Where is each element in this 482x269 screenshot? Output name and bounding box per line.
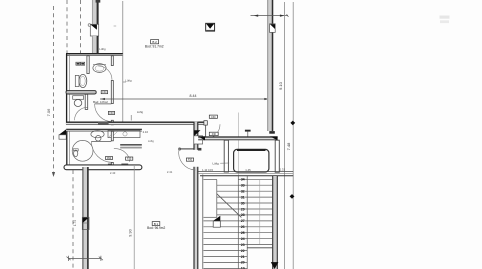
- walking line right flight: [259, 180, 261, 245]
- faint note top right: [440, 16, 450, 24]
- exterior wall left of bath block: [67, 54, 70, 125]
- faint mark left of room: [114, 25, 117, 27]
- landing edge line: [247, 247, 272, 249]
- number strip separators: [238, 179, 247, 268]
- upper lobby door arc: [206, 124, 220, 138]
- door arc lobby-hall: [179, 149, 196, 170]
- svg-text:F30: F30: [102, 91, 107, 94]
- stair direction diagonal: [217, 194, 242, 218]
- svg-text:F30: F30: [211, 116, 216, 119]
- svg-text:27: 27: [241, 219, 245, 223]
- left flight treads: [204, 185, 239, 268]
- bath3 right wall pieces: [111, 131, 113, 141]
- bath block right wall mid piece: [111, 81, 113, 104]
- svg-text:1.31: 1.31: [280, 167, 286, 171]
- door leaf bath block entry: [95, 103, 112, 105]
- svg-text:2.41: 2.41: [167, 170, 173, 174]
- elevator top wall with cut triangles: [198, 136, 277, 140]
- stair wall end triangle bottom: [271, 262, 279, 269]
- door arc bath block entry: [95, 104, 113, 122]
- counter in room D90: [108, 130, 140, 137]
- boundary dashed line 3: [80, 0, 82, 54]
- svg-text:F30: F30: [127, 158, 132, 161]
- svg-text:25: 25: [241, 231, 245, 235]
- dimension extension line x238.7: [238, 113, 240, 177]
- bath block right wall upper piece: [111, 56, 113, 66]
- svg-text:Bod: 91.7m2: Bod: 91.7m2: [145, 44, 164, 48]
- fire label F30 below lobby door: [209, 132, 218, 136]
- svg-text:22: 22: [241, 249, 245, 253]
- svg-text:2.43: 2.43: [110, 171, 116, 175]
- survey marker diamond 2: [290, 194, 295, 199]
- tread numbers: [241, 178, 245, 269]
- survey line x293.2: [292, 2, 294, 269]
- svg-text:23: 23: [241, 243, 245, 247]
- stairwell left boundary lines: [203, 175, 217, 269]
- svg-text:31: 31: [241, 195, 245, 199]
- wall top stub: [96, 0, 101, 3]
- dim text 1.41b middle room: [131, 110, 143, 121]
- toilet 2: [73, 96, 84, 107]
- room label Bu1: [147, 222, 165, 230]
- svg-text:2.10: 2.10: [143, 130, 149, 134]
- main corridor wall A y122: [66, 122, 204, 125]
- vent label elevator: [212, 161, 229, 165]
- svg-text:B 2: B 2: [152, 40, 157, 44]
- svg-text:7.48: 7.48: [286, 142, 291, 151]
- toilet 3: [73, 149, 78, 157]
- partition wall between sink and toilet area: [87, 56, 89, 74]
- svg-text:1.74: 1.74: [73, 220, 77, 226]
- svg-text:32: 32: [241, 190, 245, 194]
- beam line x134 big room: [133, 166, 135, 269]
- vent text Lueftg middle room with leader: [123, 78, 132, 82]
- top dimension line with arrows: [251, 14, 289, 16]
- svg-text:1.10 0.15: 1.10 0.15: [202, 168, 213, 172]
- bottom dimension line with ticks: [67, 256, 104, 261]
- label boxes A6 A9: [76, 62, 85, 65]
- chimney flue symbol 1: [88, 24, 99, 36]
- svg-text:9.90: 9.90: [129, 229, 133, 236]
- door hinge circle: [178, 148, 180, 150]
- threshold hatch marks on bar wall: [108, 164, 112, 167]
- chimney flue symbol lobby wall: [194, 130, 203, 144]
- door arc bath 2: [75, 107, 88, 120]
- survey line x284.6: [284, 2, 286, 269]
- shower circle bath 3: [72, 140, 93, 161]
- wall B cut marker triangle: [59, 129, 66, 139]
- bottom wall of elevator block: [198, 172, 293, 176]
- svg-text:20: 20: [241, 261, 245, 265]
- fire label F30 above lobby door: [209, 115, 217, 119]
- roof window icon room Bu2: [206, 23, 215, 31]
- svg-text:33: 33: [241, 184, 245, 188]
- stair cut symbol left: [213, 216, 220, 227]
- lower wall B y129: [66, 129, 142, 132]
- svg-text:F30: F30: [188, 159, 193, 162]
- exterior wall left vertical lower part: [92, 36, 99, 54]
- svg-text:1.45: 1.45: [245, 168, 251, 172]
- big room left wall x82-88: [82, 167, 88, 269]
- svg-text:34: 34: [241, 178, 245, 182]
- svg-text:7.06: 7.06: [46, 108, 51, 117]
- svg-text:30: 30: [241, 201, 245, 205]
- chimney flue symbol right wall: [270, 24, 276, 33]
- door leaf lobby-hall: [179, 148, 194, 150]
- svg-text:D90: D90: [107, 157, 112, 160]
- stair lobby wall x194-198 upper piece: [194, 122, 199, 150]
- svg-text:Lüftg: Lüftg: [212, 161, 219, 165]
- washbasin bath3: [91, 131, 104, 142]
- svg-text:Lüftg: Lüftg: [137, 110, 144, 114]
- number strip vertical lines: [237, 176, 239, 269]
- interior overhang line x=122.8: [122, 1, 124, 125]
- left wall bath 3: [67, 131, 70, 167]
- svg-text:Bod: 4.8m2: Bod: 4.8m2: [93, 100, 108, 104]
- elevator shaft left wall: [224, 140, 228, 172]
- svg-text:21: 21: [241, 255, 245, 259]
- bar wall with rounded end: [64, 165, 142, 170]
- chimney flue symbol big room wall: [82, 217, 89, 229]
- right flight treads: [247, 179, 272, 244]
- door closer flag mark: [245, 130, 251, 138]
- stairwell right wall: [272, 176, 277, 269]
- elevator shaft right wall: [275, 140, 279, 172]
- svg-text:F30: F30: [109, 112, 114, 115]
- svg-text:Lüftg: Lüftg: [125, 78, 132, 82]
- svg-text:24: 24: [241, 237, 245, 241]
- svg-text:28: 28: [241, 213, 245, 217]
- elevator car: [234, 149, 269, 172]
- partition wall bath2: [85, 94, 88, 109]
- washbasin 1: [93, 64, 106, 73]
- fire label F30 box hall left: [126, 157, 133, 161]
- survey marker diamond 1: [290, 121, 295, 126]
- fire label F30 box hall right: [186, 158, 193, 162]
- svg-text:F30: F30: [212, 133, 217, 136]
- hall wall segment y144-148: [120, 144, 142, 148]
- svg-text:29: 29: [241, 207, 245, 211]
- svg-text:8.44: 8.44: [190, 94, 197, 98]
- door label D90: [106, 156, 113, 160]
- door arc under hall wall: [114, 149, 130, 162]
- svg-text:26: 26: [241, 225, 245, 229]
- boundary dashed line left: [52, 6, 55, 177]
- door arc bath 1: [98, 66, 112, 80]
- exterior wall right of big room: [267, 0, 275, 134]
- horizontal wall y54 top of bath block: [66, 53, 123, 56]
- boundary dashed line bottom left: [72, 170, 74, 269]
- svg-text:Lüftg: Lüftg: [99, 47, 106, 51]
- svg-text:Lüftg: Lüftg: [148, 139, 154, 143]
- fire label F30 box 2: [108, 111, 114, 115]
- door leaf D90: [91, 140, 111, 142]
- fire label F30 box 1: [101, 91, 107, 95]
- svg-text:Bod: 96.9m2: Bod: 96.9m2: [147, 226, 165, 230]
- wall between bath1 and bath2: [66, 91, 96, 94]
- boundary dashed line 2: [66, 0, 68, 54]
- dimension line 8.44: [100, 94, 269, 100]
- toilet 1: [75, 74, 87, 87]
- room label Bu2: [145, 40, 164, 49]
- door arc D90: [91, 141, 112, 162]
- exterior wall top-left vertical: [92, 0, 99, 24]
- stair lobby wall x194-198 lower piece: [194, 167, 199, 269]
- bath block right wall lower piece: [111, 120, 113, 125]
- svg-text:9.10: 9.10: [278, 81, 283, 90]
- upper lobby door leaf and pivot: [204, 121, 207, 139]
